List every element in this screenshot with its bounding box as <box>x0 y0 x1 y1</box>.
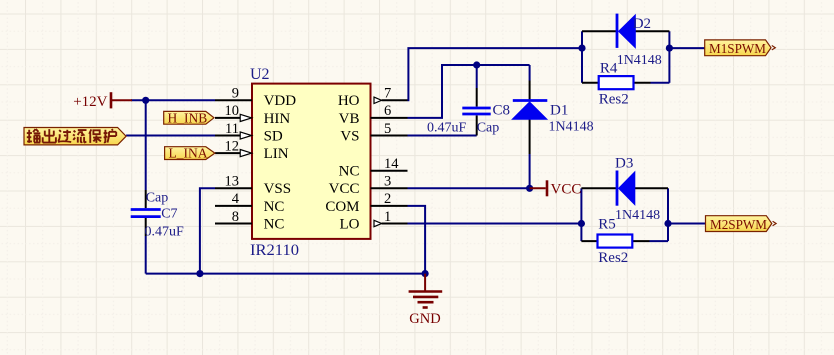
pin 11 SD <box>215 121 283 145</box>
svg-text:2: 2 <box>384 191 391 207</box>
capacitor C7 <box>131 190 184 240</box>
svg-text:VCC: VCC <box>329 181 360 197</box>
svg-text:H_INB: H_INB <box>168 110 208 125</box>
wire: C8 top stem <box>476 65 478 88</box>
svg-text:5: 5 <box>384 121 391 137</box>
pin 9 VDD <box>215 86 296 110</box>
resistor R4 Res2 <box>582 61 651 108</box>
svg-text:Res2: Res2 <box>598 250 628 266</box>
wire: D2/R4 block right vertical <box>668 31 670 83</box>
pin 3 VCC <box>329 174 408 198</box>
wire: to port M2SPWM <box>668 223 706 225</box>
wire: D1 branch vertical <box>529 65 531 188</box>
power VCC <box>530 180 582 197</box>
node: D2 block right <box>666 45 673 52</box>
op IC U2 IR2110 body <box>252 84 371 239</box>
svg-text:9: 9 <box>232 86 239 102</box>
svg-text:10: 10 <box>225 103 240 119</box>
pin 10 HIN <box>215 103 290 127</box>
svg-text:HO: HO <box>338 93 360 109</box>
wire: HO to D2 block <box>408 48 583 100</box>
svg-text:3: 3 <box>384 174 391 190</box>
svg-text:1N4148: 1N4148 <box>615 208 660 223</box>
glyph 流 <box>73 129 87 143</box>
svg-text:IR2110: IR2110 <box>250 242 299 259</box>
glyph 保 <box>89 129 101 143</box>
node: D2 block left <box>578 45 585 52</box>
wire: D3/R5 block left vertical <box>580 188 582 241</box>
svg-text:GND: GND <box>409 311 440 327</box>
svg-text:U2: U2 <box>250 66 270 83</box>
wire: R4 bottom right segment <box>651 82 670 84</box>
port M2SPWM <box>706 216 777 233</box>
svg-text:4: 4 <box>232 191 240 207</box>
wire: left rail from +12V dot down to C7 <box>145 100 147 190</box>
diode D3 1N4148 <box>581 156 668 223</box>
node: C8 top junction <box>473 61 480 68</box>
svg-text:+12V: +12V <box>73 94 107 110</box>
svg-text:C8: C8 <box>493 102 511 118</box>
svg-text:VB: VB <box>339 111 360 127</box>
wire: bottom ground rail <box>146 273 425 275</box>
resistor R5 Res2 <box>581 217 649 267</box>
svg-text:COM: COM <box>325 199 359 215</box>
pin 7 HO <box>338 86 408 110</box>
svg-text:0.47uF: 0.47uF <box>145 225 185 240</box>
capacitor C8 <box>427 88 510 136</box>
svg-text:Res2: Res2 <box>599 92 629 108</box>
pin 6 VB <box>339 103 408 127</box>
svg-text:HIN: HIN <box>264 111 291 127</box>
pin 1 LO <box>340 209 408 233</box>
port M1SPWM <box>705 40 776 57</box>
svg-text:13: 13 <box>225 174 240 190</box>
svg-text:D1: D1 <box>550 102 568 118</box>
pin 8 NC <box>215 209 284 233</box>
svg-text:SD: SD <box>264 128 283 144</box>
wire: LO to D3 block <box>408 223 582 225</box>
svg-text:11: 11 <box>225 121 239 137</box>
power +12V <box>73 92 132 110</box>
svg-text:0.47uF: 0.47uF <box>427 121 467 136</box>
pin 2 COM <box>325 191 407 215</box>
svg-text:6: 6 <box>384 103 391 119</box>
svg-text:14: 14 <box>384 156 399 172</box>
port L_INA <box>165 146 215 161</box>
diode D1 1N4148 <box>512 81 593 155</box>
wire: pin3 VCC <box>408 187 530 189</box>
svg-text:1N4148: 1N4148 <box>549 120 594 135</box>
wire: D2/R4 block left vertical <box>581 31 583 83</box>
svg-text:Cap: Cap <box>477 121 500 136</box>
wire: VB up and over to D1 <box>408 65 530 118</box>
port 输出过流保护 <box>24 128 126 145</box>
glyph 过 <box>58 130 71 142</box>
node: VSS to rail <box>196 270 203 277</box>
glyph 输 <box>27 129 41 143</box>
svg-text:R5: R5 <box>598 217 616 233</box>
svg-text:7: 7 <box>384 86 391 102</box>
svg-text:R4: R4 <box>600 61 618 77</box>
node: D3 block left <box>578 220 585 227</box>
node: VCC junction <box>526 185 533 192</box>
svg-text:C7: C7 <box>161 206 177 221</box>
svg-text:NC: NC <box>339 164 360 180</box>
ground GND <box>409 274 443 327</box>
svg-text:M2SPWM: M2SPWM <box>710 218 768 233</box>
pin 12 LIN <box>215 138 289 162</box>
svg-text:VS: VS <box>340 128 359 144</box>
glyph 出 <box>43 129 56 143</box>
pin 13 VSS <box>215 174 291 198</box>
svg-text:NC: NC <box>264 199 285 215</box>
svg-text:VCC: VCC <box>551 181 582 197</box>
node: D3 block right <box>664 220 671 227</box>
svg-text:1N4148: 1N4148 <box>617 53 662 68</box>
wire: COM down to ground rail <box>408 206 426 274</box>
wire: VSS branch <box>200 188 215 273</box>
pin 4 NC <box>215 191 284 215</box>
glyph 护 <box>104 129 117 143</box>
svg-text:VDD: VDD <box>264 93 297 109</box>
port H_INB <box>164 110 214 125</box>
wire: +12V to pin9 VDD <box>131 99 215 101</box>
svg-text:VSS: VSS <box>264 181 292 197</box>
pin 5 VS <box>340 121 407 145</box>
svg-text:L_INA: L_INA <box>169 146 208 161</box>
svg-text:NC: NC <box>264 216 285 232</box>
svg-text:8: 8 <box>232 209 239 225</box>
pin 14 NC <box>339 156 408 180</box>
svg-text:M1SPWM: M1SPWM <box>709 42 767 57</box>
svg-text:12: 12 <box>225 138 240 154</box>
wire: SD input from port <box>126 135 215 137</box>
wire: C7 bottom to bottom rail <box>145 236 147 274</box>
svg-text:D3: D3 <box>615 156 633 172</box>
wire: VS to C8 bottom <box>408 135 477 137</box>
node: GND junction <box>422 270 429 277</box>
node: +12V junction <box>142 97 149 104</box>
svg-text:D2: D2 <box>633 16 651 32</box>
svg-text:1: 1 <box>384 209 391 225</box>
wire: to port M1SPWM <box>669 47 704 49</box>
svg-text:LIN: LIN <box>264 146 289 162</box>
svg-text:Cap: Cap <box>146 191 169 206</box>
wire: R5 bottom right segment <box>650 240 669 242</box>
svg-text:LO: LO <box>340 216 360 232</box>
diode D2 1N4148 <box>582 14 669 69</box>
wire: D3/R5 block right vertical <box>667 188 669 241</box>
